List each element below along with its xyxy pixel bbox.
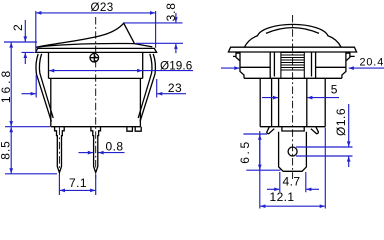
svg-text:Ø23: Ø23: [90, 1, 113, 14]
spring: [281, 52, 304, 78]
left snap wing: [36, 54, 53, 122]
svg-text:3.8: 3.8: [164, 2, 178, 21]
dim Ø23 extension lines: [36, 11, 156, 52]
screw head: [90, 53, 99, 62]
body bottom line (end view): [260, 126, 325, 128]
body upper section walls: [49, 52, 143, 78]
left leg: [260, 78, 271, 126]
dim Ø1.6 line + arrows: [348, 104, 350, 147]
dim 3.8 arrows: [175, 13, 177, 22]
dim Ø23 line: [36, 12, 96, 14]
dim 12.1 line: [260, 205, 292, 207]
center tab: [282, 127, 304, 131]
dim 12.1 left extension: [259, 131, 261, 209]
centerline left pin: [58, 128, 60, 177]
svg-text:2: 2: [11, 24, 25, 31]
right leg outer: [324, 78, 326, 126]
dim 5 arrows: [262, 97, 278, 99]
svg-text:6.5: 6.5: [238, 139, 252, 163]
svg-text:0.8: 0.8: [106, 139, 124, 153]
svg-text:20.4: 20.4: [359, 56, 384, 68]
dim 0.8 arrows: [79, 152, 93, 154]
dome outer profile (end view): [244, 24, 341, 47]
dim 7.1 extension lines: [59, 175, 95, 196]
svg-text:16.8: 16.8: [0, 68, 13, 103]
dim 23 extension lines: [36, 75, 157, 98]
dim 6.5 line: [259, 135, 261, 152]
dim Ø19.6 line: [49, 70, 96, 72]
dim 23 arrows: [22, 93, 36, 95]
left housing box: [240, 52, 342, 78]
svg-text:4.7: 4.7: [283, 174, 301, 188]
left hook: [267, 127, 275, 134]
dim 2 arrows: [24, 20, 26, 42]
bezel flange (end view): [228, 47, 356, 52]
centerline left view: [95, 17, 97, 178]
dim 16.8 bottom ref line: [5, 126, 50, 128]
rocker actuator (side view): [36, 23, 135, 47]
dim 4.7 arrows: [267, 188, 279, 190]
dim 8.5 line: [10, 127, 12, 150]
dim 3.8 extension lines: [124, 23, 183, 43]
dim 7.1 line: [60, 189, 78, 191]
right hook: [311, 127, 319, 134]
body lower section walls: [51, 78, 141, 126]
right latch bump: [346, 53, 355, 61]
svg-text:8.5: 8.5: [0, 140, 13, 159]
svg-text:7.1: 7.1: [69, 176, 87, 190]
center post: [279, 132, 307, 172]
dim 6.5 ref lines: [243, 134, 280, 170]
svg-text:5: 5: [331, 83, 338, 97]
dim 8.5 bottom ref line: [5, 173, 57, 175]
bezel flange (side view): [36, 48, 157, 52]
dim 20.4 arrows: [221, 67, 239, 69]
lower channel walls: [279, 78, 307, 126]
left latch bump: [233, 53, 240, 61]
svg-text:23: 23: [168, 81, 182, 95]
svg-text:Ø1.6: Ø1.6: [334, 108, 348, 136]
dim 2 reference lines: [4, 42, 37, 52]
center terminal pin: [91, 127, 101, 173]
dim Ø1.6 ref lines: [296, 147, 353, 156]
svg-text:12.1: 12.1: [270, 190, 295, 204]
right bottom feet: [127, 127, 141, 132]
left terminal pin: [55, 127, 65, 173]
right housing box: [312, 52, 346, 78]
dim 4.7 extension lines: [280, 172, 306, 192]
dome inner arc: [266, 28, 319, 34]
dim 12.1 right extension: [324, 128, 326, 209]
centerline right view: [292, 15, 294, 179]
right snap wing: [138, 54, 155, 122]
dim 16.8 line: [10, 43, 12, 85]
svg-text:Ø19.6: Ø19.6: [160, 59, 192, 72]
rocker right tail edge: [135, 44, 153, 47]
hole: [288, 147, 297, 156]
